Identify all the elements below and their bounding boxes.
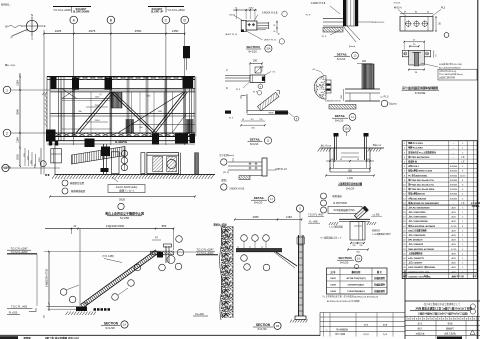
svg-text:SECTION: SECTION [246,45,259,49]
svg-text:S=1/10: S=1/10 [248,50,257,54]
svg-text:S=1/20: S=1/20 [346,186,355,190]
svg-text:P: P [11,36,13,40]
svg-text:M16: M16 [158,111,162,113]
svg-text:ACB: ACB [451,243,456,246]
svg-text:基礎補強範囲: 基礎補強範囲 [71,189,86,193]
svg-text:S=1/10: S=1/10 [254,200,263,204]
svg-text:3929: 3929 [119,198,126,202]
svg-text:PL 9: PL 9 [322,36,327,38]
svg-text:—: — [453,161,455,163]
svg-text:1025: 1025 [55,29,62,33]
svg-text:ACB: ACB [451,239,456,242]
svg-text:40: 40 [227,87,229,89]
svg-text:S=1/50: S=1/50 [120,216,130,220]
svg-text:4.0TG: 4.0TG [451,226,457,228]
svg-text:1184: 1184 [286,215,292,219]
svg-text:FL+200: FL+200 [9,312,18,315]
svg-text:SLOPE UP: SLOPE UP [151,10,163,13]
svg-text:DETAIL: DETAIL [254,196,265,200]
svg-text:14@240=3360: 14@240=3360 [106,224,125,228]
svg-text:吊り金具固定用部材詳細図: 吊り金具固定用部材詳細図 [402,85,438,90]
svg-text:(6mm): (6mm) [349,46,356,48]
svg-text:W608: W608 [269,113,274,115]
svg-text:(PL 9): (PL 9) [223,172,229,174]
svg-text:S=1/10: S=1/10 [337,57,346,61]
svg-text:S=NONE: S=NONE [415,91,426,95]
svg-text:海右上走界辺立于橋梁中止図: 海右上走界辺立于橋梁中止図 [105,211,144,216]
svg-text:2500: 2500 [95,120,101,122]
svg-text:ACB: ACB [451,257,456,260]
svg-text:SUS304: SUS304 [450,171,458,173]
svg-text:T.O.S FL+3510: T.O.S FL+3510 [167,8,185,12]
svg-text:t6 45X75X90: t6 45X75X90 [333,202,347,205]
svg-text:50: 50 [357,159,359,161]
svg-text:E: E [44,24,46,28]
svg-text:—: — [453,148,455,150]
svg-text:SUS304: SUS304 [450,166,458,168]
svg-text:2: 2 [6,131,8,135]
svg-text:ACB: ACB [451,252,456,255]
svg-text:200: 200 [359,245,362,247]
svg-text:ACB: ACB [451,216,456,219]
svg-text:SUS304: SUS304 [450,198,458,200]
svg-text:(SHOT PL 9): (SHOT PL 9) [264,40,276,42]
svg-text:基礎架台設置: 基礎架台設置 [70,181,85,185]
svg-text:125: 125 [259,119,262,121]
svg-text:SLOPE DOWN: SLOPE DOWN [73,10,90,13]
svg-text:14.3m: 14.3m [460,175,466,177]
svg-text:#5 D.H.: #5 D.H. [393,3,401,5]
svg-text:DETAIL: DETAIL [337,53,348,57]
svg-text:3340: 3340 [16,109,20,115]
svg-text:4-PL/ C6H2X775: 4-PL/ C6H2X775 [408,257,424,260]
svg-text:(SHOT PL 9): (SHOT PL 9) [225,34,237,36]
svg-text:S=1/10: S=1/10 [250,142,259,146]
svg-text:SUS304: SUS304 [450,194,458,196]
svg-text:290: 290 [253,60,258,63]
svg-text:(+): (+) [147,94,151,98]
svg-text:100: 100 [330,159,333,161]
svg-text:ACB: ACB [451,229,456,232]
svg-text:SECTION: SECTION [104,322,119,326]
svg-text:C1S0X7W5(2A)1G: C1S0X7W5(2A)1G [347,290,365,293]
svg-text:200: 200 [362,60,367,63]
svg-text:2-M20X H.S.B.: 2-M20X H.S.B. [262,11,278,14]
svg-text:200: 200 [352,245,355,247]
svg-text:S=1/10: S=1/10 [335,118,344,122]
svg-text:C6H3: C6H3 [330,291,336,293]
svg-text:#8 D.H.: #8 D.H. [394,6,402,9]
svg-text:2500: 2500 [95,105,101,107]
svg-text:450: 450 [78,111,81,113]
svg-text:35: 35 [273,25,275,27]
svg-text:(T.O. A #B): (T.O. A #B) [102,255,113,258]
svg-text:(6mm): (6mm) [228,155,235,157]
svg-text:—: — [453,143,455,145]
svg-text:M6: M6 [426,53,428,55]
svg-text:C6H2: C6H2 [330,285,336,287]
svg-text:2055: 2055 [16,154,20,160]
svg-text:T.O.C FL+3247: T.O.C FL+3247 [196,248,214,251]
svg-text:ACB: ACB [451,262,456,265]
svg-text:T.O.C FL +400: T.O.C FL +400 [11,306,28,309]
svg-text:Anchor 30mΦ (defte): Anchor 30mΦ (defte) [116,186,138,189]
svg-text:5/400 40X2X50L 46.7M#1M: 5/400 40X2X50L 46.7M#1M [408,248,434,251]
svg-text:N: N [31,13,33,17]
svg-text:DETAIL: DETAIL [335,114,346,118]
svg-text:STAIRS: STAIRS [115,140,128,144]
svg-text:S=1/20: S=1/20 [340,260,349,264]
svg-text:2-M20X H.S.B.: 2-M20X H.S.B. [229,189,245,191]
svg-text:ACB: ACB [451,266,456,269]
svg-text:1: 1 [6,88,8,92]
svg-text:115: 115 [250,119,253,121]
svg-text:SUS304: SUS304 [450,184,458,186]
svg-text:T.O.C FL+3247: T.O.C FL+3247 [10,247,28,250]
svg-text:1B: 1B [276,324,279,328]
svg-text:4.0TG: 4.0TG [451,249,457,251]
svg-text:CES098XT(2A)11: CES098XT(2A)11 [348,284,365,287]
svg-text:S: S [31,37,33,41]
svg-text:1450: 1450 [172,29,179,33]
svg-text:1184: 1184 [16,80,20,86]
svg-text:1184: 1184 [16,137,20,143]
svg-text:SECTION: SECTION [338,256,351,260]
svg-text:40: 40 [277,34,279,36]
svg-text:—: — [453,157,455,159]
svg-text:10: 10 [242,119,244,121]
svg-text:SUS304: SUS304 [450,175,458,177]
svg-text:50: 50 [340,159,342,161]
svg-text:S=1/30: S=1/30 [105,326,115,330]
svg-text:PIPE49.5X3.5: PIPE49.5X3.5 [372,22,385,24]
svg-text:PL 9: PL 9 [384,97,389,99]
svg-text:14@(180)=2730: 14@(180)=2730 [46,268,49,287]
svg-text:現場溶接: 現場溶接 [332,194,342,198]
svg-text:SUS製伸縮継手(50): SUS製伸縮継手(50) [333,208,354,212]
svg-text:12A: 12A [345,128,350,131]
svg-text:15A: 15A [266,48,271,51]
svg-text:40X2: 40X2 [249,7,255,9]
svg-text:SUS304: SUS304 [450,180,458,182]
svg-text:ACT2E-TS2(C2)(21): ACT2E-TS2(C2)(21) [346,277,365,280]
svg-text:ACB: ACB [451,234,456,237]
svg-text:ACB: ACB [451,206,456,209]
svg-text:4/PL 50X46L70: 4/PL 50X46L70 [408,239,423,242]
svg-text:T.O.S FL+3200: T.O.S FL+3200 [53,8,71,12]
svg-text:1,200: 1,200 [347,178,353,180]
svg-text:95: 95 [273,31,275,33]
svg-text:SUS304: SUS304 [450,189,458,191]
svg-text:ACB: ACB [451,211,456,214]
svg-text:4550: 4550 [135,29,142,33]
svg-text:M6: M6 [404,53,406,55]
svg-text:—: — [453,152,455,154]
svg-text:S=1/30: S=1/30 [258,327,267,331]
svg-text:—: — [453,203,455,205]
svg-text:ANP PL 16: ANP PL 16 [275,168,287,171]
svg-text:100: 100 [366,159,369,161]
svg-text:W: W [5,25,8,29]
svg-text:2975: 2975 [89,29,96,33]
svg-text:(3期3A4期8a17期3.3a39ア/ 線37th/1b/: (3期3A4期8a17期3.3a39ア/ 線37th/1b/丁目間) [418,311,468,315]
svg-text:2055: 2055 [253,215,259,219]
svg-text:PL3: PL3 [441,6,446,9]
svg-text:C6H1: C6H1 [330,278,336,280]
svg-text:ACB: ACB [451,220,456,223]
svg-text:DETAIL: DETAIL [250,137,261,141]
svg-text:ALT=40X40X5 A M6X20: ALT=40X40X5 A M6X20 [439,66,461,69]
svg-text:35: 35 [227,69,229,71]
svg-text:2-M20X H.S.B: 2-M20X H.S.B [311,3,326,5]
svg-text:853: 853 [162,224,167,228]
svg-text:JR西 都島本通第1工区 3a線ア/ 線37th/1b/丁目: JR西 都島本通第1工区 3a線ア/ 線37th/1b/丁目間 [415,306,472,310]
svg-text:SECTION: SECTION [256,323,271,327]
svg-text:PL 9: PL 9 [306,15,311,17]
svg-text:▽6mm: ▽6mm [229,14,235,17]
svg-text:1A: 1A [123,323,126,327]
svg-text:2-M20X60 H.S.B.: 2-M20X60 H.S.B. [325,101,342,103]
